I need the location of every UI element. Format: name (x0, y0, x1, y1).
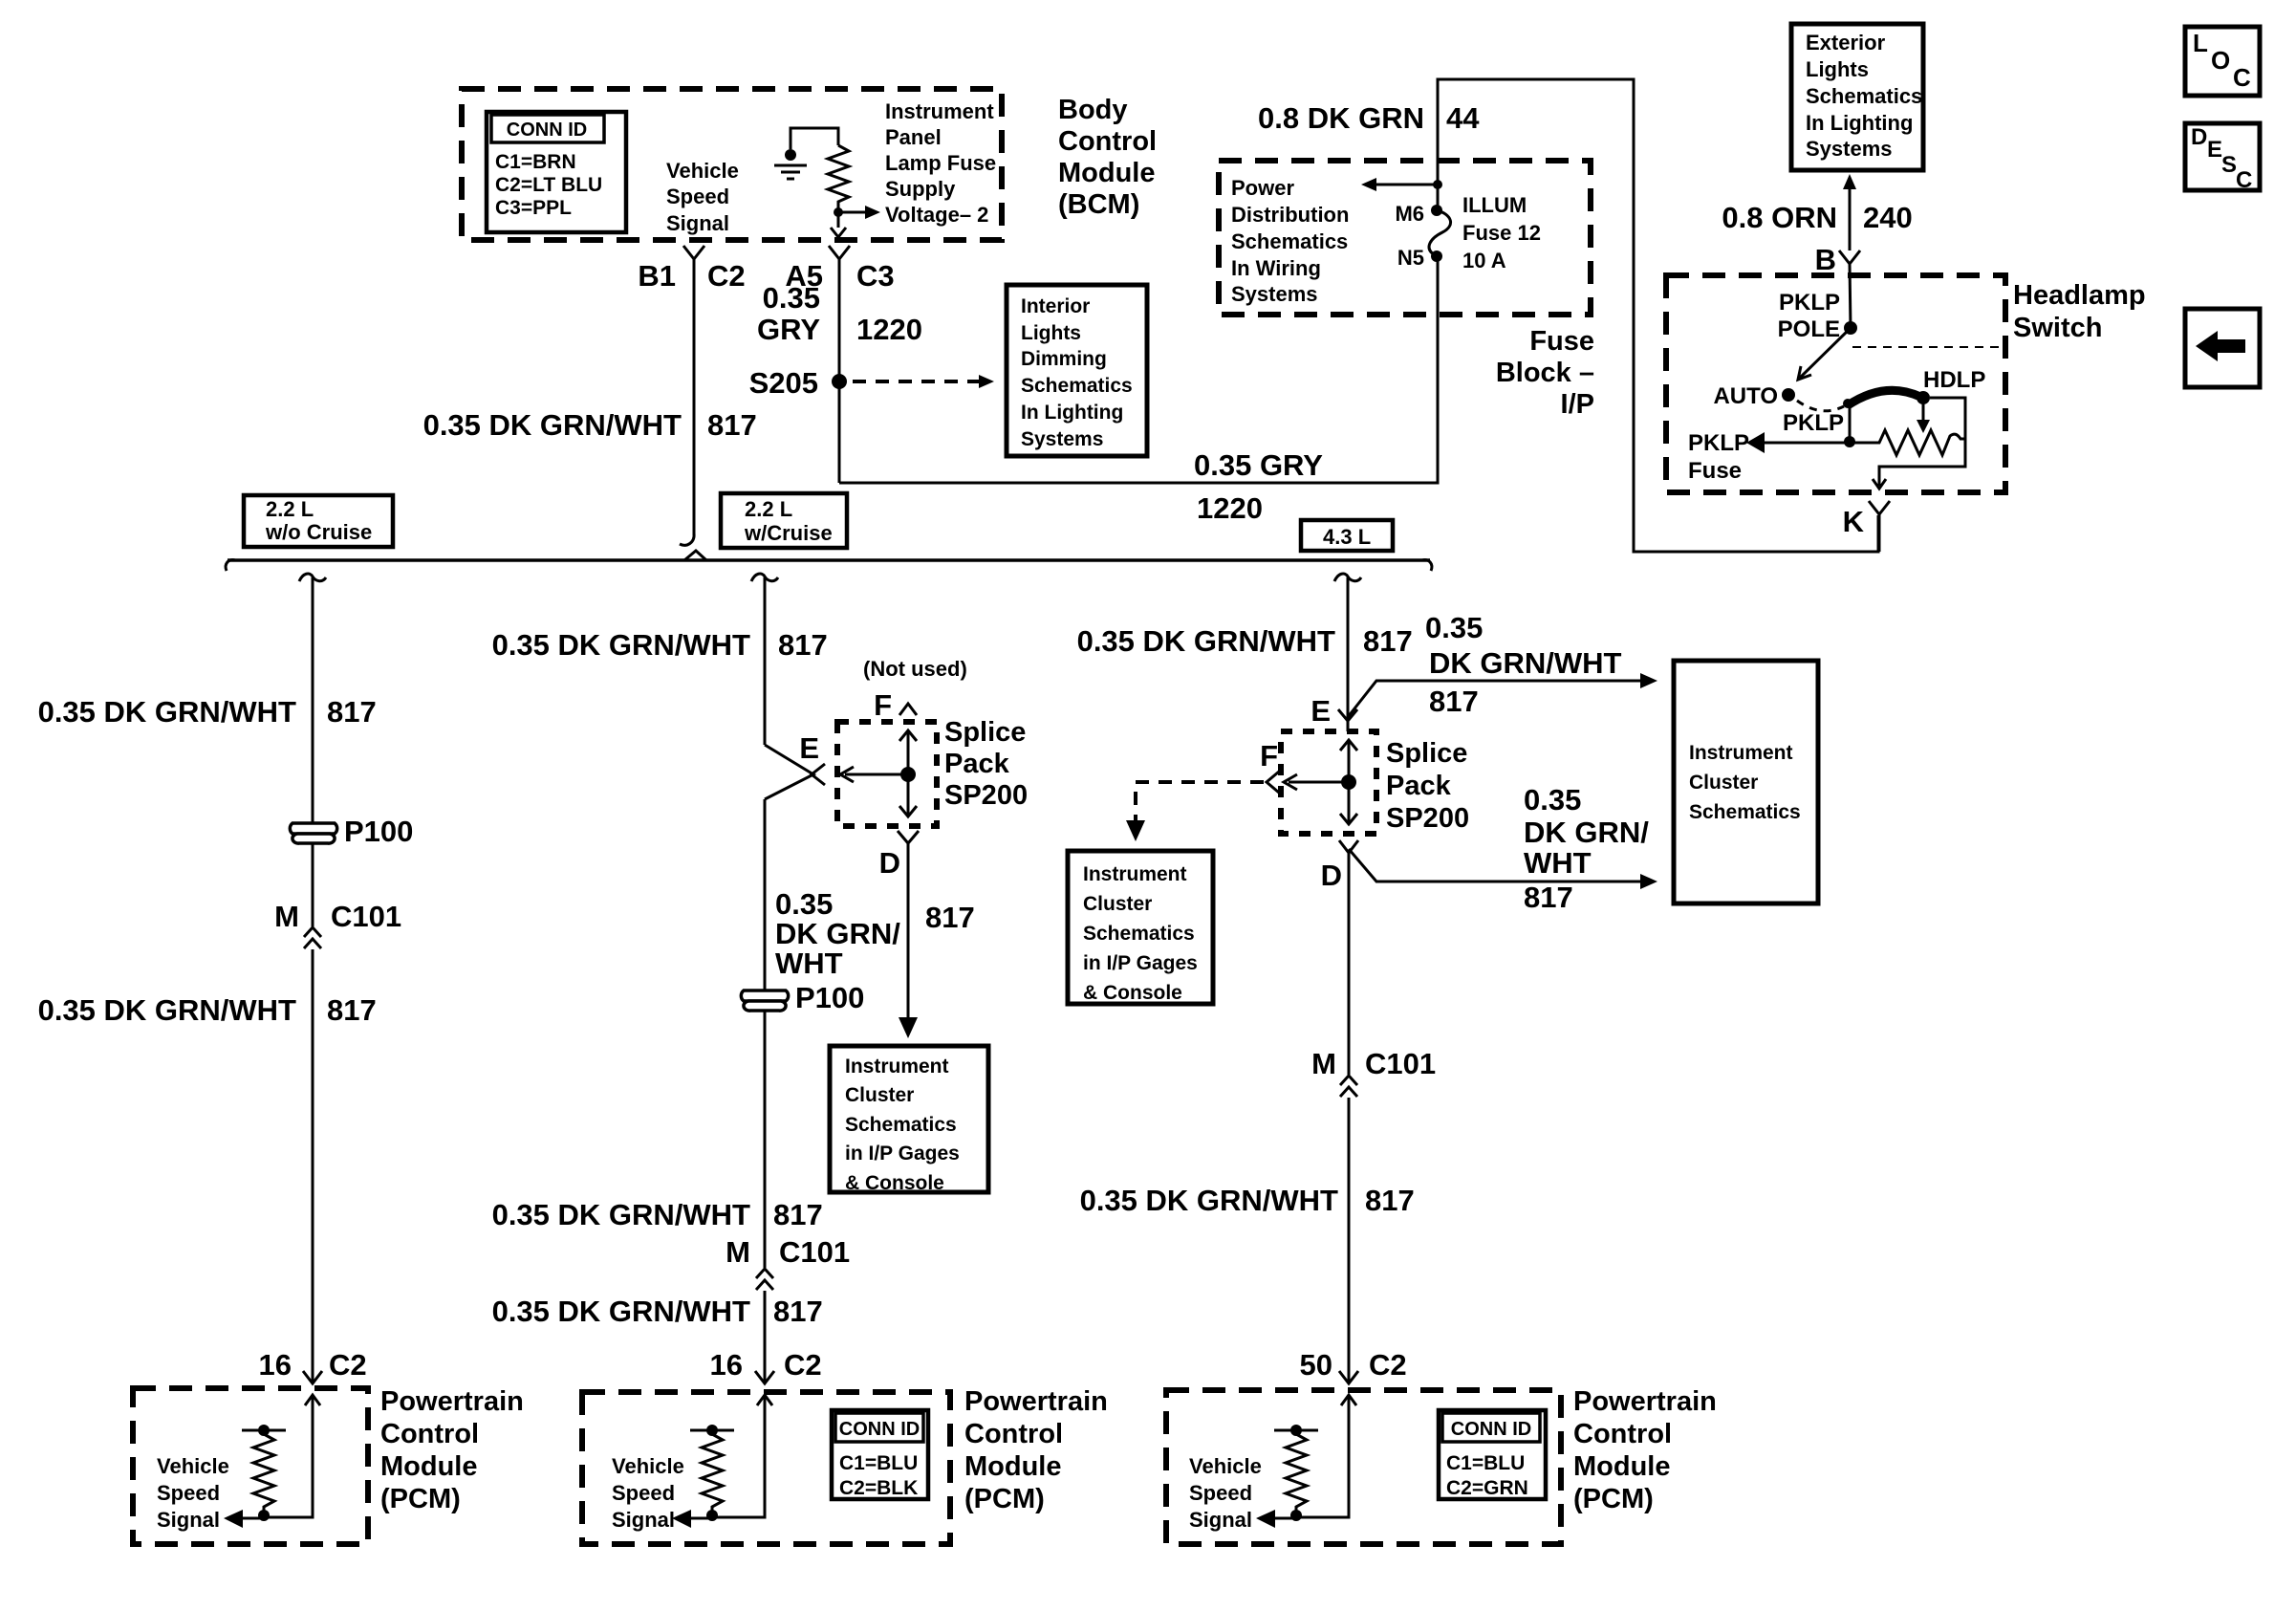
connector pin K (1843, 501, 1890, 538)
arrow vehicle speed signal (PCM2) (672, 1510, 712, 1528)
wire label 0.35 DK GRN/WHT 817 (492, 1295, 823, 1328)
branch hook (299, 574, 326, 581)
option box 4.3 L (1301, 520, 1393, 551)
label Vehicle Speed Signal (PCM1) (157, 1454, 229, 1532)
svg-text:Fuse 12: Fuse 12 (1462, 221, 1541, 245)
svg-text:C1=BLU: C1=BLU (1446, 1452, 1525, 1474)
svg-text:817: 817 (707, 408, 757, 442)
svg-text:w/o Cruise: w/o Cruise (265, 520, 372, 544)
svg-text:0.35 DK GRN/WHT: 0.35 DK GRN/WHT (492, 1198, 750, 1231)
svg-text:16: 16 (710, 1348, 743, 1382)
svg-text:Vehicle: Vehicle (1189, 1454, 1262, 1478)
svg-text:Schematics: Schematics (845, 1114, 957, 1136)
wire branch2 lower (764, 1291, 767, 1383)
label Headlamp Switch (2013, 280, 2146, 343)
label Fuse Block - I/P (1496, 326, 1594, 420)
svg-text:C3: C3 (856, 259, 895, 293)
svg-text:0.35 GRY: 0.35 GRY (1194, 448, 1323, 482)
svg-text:Fuse: Fuse (1529, 326, 1594, 357)
arrow to Power Distribution reference (1361, 178, 1438, 191)
svg-text:Cluster: Cluster (1083, 893, 1152, 915)
svg-text:817: 817 (327, 695, 377, 729)
wire inside PCM1 (264, 1395, 313, 1517)
svg-text:Powertrain: Powertrain (1573, 1386, 1717, 1417)
svg-text:817: 817 (778, 628, 828, 662)
pin labels B1 C2 (638, 259, 745, 293)
wire branch2 middle (764, 799, 767, 1268)
svg-text:I/P: I/P (1561, 389, 1594, 420)
svg-text:(PCM): (PCM) (1573, 1484, 1654, 1514)
wire fuse block loop to headlamp switch (1438, 79, 1878, 552)
svg-text:Pack: Pack (1386, 771, 1452, 801)
svg-text:Supply: Supply (885, 177, 956, 201)
dashed wire S205 to Interior Lights reference (853, 375, 994, 388)
svg-text:0.35: 0.35 (1425, 611, 1483, 644)
connector C101 pin M (branch1) (274, 900, 401, 948)
wire D down arrow to instrument cluster ref (899, 843, 918, 1038)
label Powertrain Control Module (PCM) 3 (1573, 1386, 1717, 1514)
wire branch3 lower (1348, 1098, 1351, 1383)
svg-text:817: 817 (1363, 624, 1413, 658)
svg-text:817: 817 (773, 1198, 823, 1231)
wire ground to resistor (791, 128, 838, 149)
connector pin B (headlamp switch) (1815, 243, 1860, 276)
wire label 0.35 DK GRN/WHT 817 (492, 628, 828, 662)
thin dashed divider (1852, 346, 2004, 348)
connector C101 pin M (branch2) (726, 1235, 850, 1290)
svg-text:Cluster: Cluster (1689, 772, 1758, 794)
svg-text:Speed: Speed (157, 1481, 220, 1505)
svg-text:Headlamp: Headlamp (2013, 280, 2146, 311)
connector pin B1 C2 (BCM exit) (683, 246, 704, 259)
svg-text:in I/P Gages: in I/P Gages (845, 1143, 960, 1165)
svg-text:In Lighting: In Lighting (1806, 111, 1913, 135)
svg-text:0.35 DK GRN/WHT: 0.35 DK GRN/WHT (38, 993, 296, 1027)
arrow to Voltage-2 (838, 206, 880, 219)
svg-text:C: C (2233, 63, 2251, 92)
icon box DESC (2185, 123, 2260, 193)
arrow vehicle speed signal (PCM3) (1256, 1510, 1296, 1528)
label Vehicle Speed Signal (PCM3) (1189, 1454, 1262, 1532)
svg-text:Control: Control (380, 1419, 479, 1449)
wire branch2 upper (764, 577, 767, 745)
svg-text:w/Cruise: w/Cruise (744, 521, 833, 545)
resistor vehicle speed signal (PCM2) (690, 1425, 734, 1521)
svg-text:10 A: 10 A (1462, 249, 1506, 272)
svg-text:& Console: & Console (1083, 982, 1182, 1004)
svg-text:Instrument: Instrument (885, 99, 994, 123)
switch contact bar (thick arc) (1843, 390, 1920, 408)
svg-text:S205: S205 (749, 366, 818, 400)
reference box Exterior Lights Schematics In Lighting Systems (1791, 24, 1923, 170)
svg-text:Lights: Lights (1021, 322, 1081, 344)
fuse ILLUM Fuse 12 10 A (1395, 193, 1541, 272)
wire labels 0.8 ORN 240 (1722, 201, 1912, 234)
svg-text:(Not used): (Not used) (863, 657, 967, 681)
svg-text:E: E (1310, 694, 1331, 728)
svg-text:PKLP: PKLP (1783, 410, 1844, 436)
svg-text:C2=BLK: C2=BLK (839, 1477, 918, 1499)
svg-text:Instrument: Instrument (1083, 863, 1187, 885)
wire label 0.8 DK GRN 44 (1258, 101, 1480, 135)
chevron arrow at K exit (1873, 479, 1886, 489)
label Vehicle Speed Signal (BCM) (666, 159, 739, 235)
svg-text:0.35: 0.35 (763, 281, 820, 315)
svg-text:F: F (874, 688, 892, 722)
reference box Power Distribution Schematics In Wiring Systems (dashed) (1219, 161, 1591, 315)
label Powertrain Control Module (PCM) 1 (380, 1386, 524, 1514)
svg-text:ILLUM: ILLUM (1462, 193, 1527, 217)
branch hook (1334, 574, 1361, 581)
wire labels 0.35 GRY 1220 (horizontal) (1194, 448, 1323, 525)
svg-text:44: 44 (1446, 101, 1480, 135)
svg-text:Instrument: Instrument (845, 1056, 949, 1078)
svg-text:(PCM): (PCM) (380, 1484, 461, 1514)
svg-text:M: M (274, 900, 299, 933)
svg-text:817: 817 (327, 993, 377, 1027)
entry arrow chevron (PCM1) (305, 1395, 320, 1405)
CONN ID table (BCM) (487, 112, 626, 232)
wire detour through splice E (765, 745, 813, 799)
svg-text:50: 50 (1300, 1348, 1332, 1382)
splice internal bus arrow (840, 730, 917, 816)
node junction at fuse feed (1433, 180, 1442, 189)
svg-text:WHT: WHT (775, 947, 843, 980)
svg-text:E: E (2207, 137, 2222, 163)
svg-text:0.35 DK GRN/WHT: 0.35 DK GRN/WHT (1080, 1184, 1338, 1217)
PCM3 dashed box (1166, 1390, 1561, 1544)
entry arrow chevron (PCM3) (1341, 1395, 1356, 1405)
svg-text:Systems: Systems (1806, 137, 1893, 161)
splice internal bus arrow (1284, 740, 1357, 824)
node S205 (749, 366, 847, 400)
svg-text:In Wiring: In Wiring (1231, 256, 1321, 280)
svg-text:Systems: Systems (1231, 282, 1318, 306)
svg-text:D: D (2191, 124, 2207, 150)
terminal F chevron (branch3) (1260, 739, 1279, 793)
svg-text:(BCM): (BCM) (1058, 189, 1139, 220)
CONN ID table (PCM2) (832, 1410, 928, 1499)
svg-text:DK GRN/: DK GRN/ (1524, 816, 1649, 849)
node junction below resistor (834, 207, 843, 217)
node PKLP POLE (1778, 290, 1857, 342)
svg-text:817: 817 (1429, 685, 1479, 718)
svg-text:0.35: 0.35 (1524, 783, 1581, 816)
splice pack SP200 dashed box (branch2) (837, 722, 937, 826)
entry arrow chevron (PCM2) (757, 1395, 772, 1405)
svg-text:Speed: Speed (612, 1481, 675, 1505)
svg-text:CONN ID: CONN ID (1451, 1419, 1531, 1440)
svg-text:Exterior: Exterior (1806, 31, 1886, 54)
svg-text:Dimming: Dimming (1021, 348, 1107, 370)
svg-text:Splice: Splice (1386, 738, 1467, 769)
svg-text:C2=LT BLU: C2=LT BLU (495, 174, 602, 196)
bus left end hook (226, 560, 235, 571)
svg-text:0.35 DK GRN/WHT: 0.35 DK GRN/WHT (1077, 624, 1335, 658)
wire label 0.35 DK GRN/WHT 817 (423, 408, 757, 442)
svg-text:P100: P100 (795, 981, 864, 1014)
svg-text:CONN ID: CONN ID (507, 120, 587, 141)
svg-text:0.8 ORN: 0.8 ORN (1722, 201, 1837, 234)
arrow vehicle speed signal (PCM1) (224, 1510, 264, 1528)
node AUTO (1713, 383, 1795, 409)
svg-text:Block –: Block – (1496, 358, 1594, 388)
svg-text:(PCM): (PCM) (964, 1484, 1045, 1514)
dashed wiper path AUTO to PKLP contact (1797, 401, 1844, 411)
switch wiper arrow POLE to AUTO (1798, 328, 1851, 380)
svg-text:Lamp Fuse: Lamp Fuse (885, 151, 996, 175)
svg-text:Control: Control (1058, 126, 1157, 157)
svg-text:Fuse: Fuse (1688, 458, 1742, 484)
svg-text:Module: Module (1058, 158, 1156, 188)
svg-text:0.35 DK GRN/WHT: 0.35 DK GRN/WHT (492, 1295, 750, 1328)
svg-text:0.35: 0.35 (775, 887, 833, 921)
connector pin A5 C3 (BCM exit) (829, 246, 850, 259)
connector P100 (branch2) (741, 981, 864, 1014)
connector pin 16 C2 (PCM1) (259, 1348, 367, 1383)
terminal D connector (splice SP200) (879, 831, 919, 880)
wire inside PCM3 (1296, 1395, 1349, 1517)
PCM1 dashed box (133, 1388, 368, 1544)
svg-text:L: L (2193, 29, 2208, 57)
svg-text:Power: Power (1231, 176, 1294, 200)
splice pack SP200 dashed box (branch3) (1281, 731, 1376, 834)
reference box Instrument Cluster Schematics in I/P Gages & Console (branch2) (830, 1046, 988, 1194)
svg-text:GRY: GRY (757, 313, 820, 346)
wire inside PCM2 (712, 1395, 765, 1517)
svg-text:Instrument: Instrument (1689, 742, 1793, 764)
svg-text:Splice: Splice (944, 717, 1026, 748)
svg-text:Powertrain: Powertrain (380, 1386, 524, 1417)
svg-text:817: 817 (925, 901, 975, 934)
reference box Instrument Cluster Schematics (right) (1674, 661, 1818, 903)
svg-text:Signal: Signal (157, 1508, 220, 1532)
label Powertrain Control Module (PCM) 2 (964, 1386, 1108, 1514)
wire labels 0.35 GRY 1220 (757, 281, 922, 346)
wire labels 0.35 DK GRN/WHT 817 (E tap) (1425, 611, 1622, 718)
wire arc to PKLP node (1849, 406, 1852, 442)
svg-text:C3=PPL: C3=PPL (495, 197, 572, 219)
svg-text:Panel: Panel (885, 125, 942, 149)
svg-text:C2: C2 (707, 259, 746, 293)
wire K down (1878, 514, 1881, 552)
bus right end hook (1422, 560, 1432, 571)
svg-text:Powertrain: Powertrain (964, 1386, 1108, 1417)
pin labels A5 C3 (785, 259, 894, 293)
svg-text:in I/P Gages: in I/P Gages (1083, 952, 1198, 974)
svg-text:C1=BRN: C1=BRN (495, 151, 576, 173)
svg-text:0.8 DK GRN: 0.8 DK GRN (1258, 101, 1424, 135)
svg-text:Interior: Interior (1021, 295, 1090, 317)
svg-text:Control: Control (964, 1419, 1063, 1449)
reference box Interior Lights Dimming Schematics In Lighting Systems (1007, 285, 1147, 456)
svg-text:N5: N5 (1397, 246, 1424, 270)
svg-text:240: 240 (1863, 201, 1913, 234)
connector C101 pin M (branch3) (1311, 1047, 1436, 1097)
BCM label Body Control Module (BCM) (1058, 95, 1157, 220)
svg-text:Distribution: Distribution (1231, 203, 1349, 227)
svg-text:HDLP: HDLP (1923, 367, 1985, 393)
svg-text:0.35 DK GRN/WHT: 0.35 DK GRN/WHT (492, 628, 750, 662)
svg-text:D: D (1321, 859, 1342, 892)
module BCM dashed box (462, 89, 1002, 240)
PCM2 dashed box (582, 1392, 950, 1544)
label Vehicle Speed Signal (PCM2) (612, 1454, 684, 1532)
svg-text:2.2 L: 2.2 L (266, 497, 314, 521)
bus wire (227, 558, 1430, 562)
wire labels 0.35 DK GRN/ WHT 817 (D tap) (1524, 783, 1649, 914)
svg-text:CONN ID: CONN ID (839, 1419, 920, 1440)
svg-text:PKLP: PKLP (1688, 430, 1749, 456)
wire 0.8 ORN up arrow into Exterior Lights (1843, 174, 1856, 250)
connector pin 50 C2 (PCM3) (1300, 1348, 1407, 1383)
svg-text:O: O (2211, 46, 2230, 75)
connector pin 16 C2 (PCM2) (710, 1348, 822, 1383)
svg-text:4.3 L: 4.3 L (1323, 525, 1371, 549)
svg-text:Voltage– 2: Voltage– 2 (885, 203, 988, 227)
svg-text:M: M (1311, 1047, 1336, 1080)
svg-text:Signal: Signal (612, 1508, 675, 1532)
label Instrument Panel Lamp Fuse Supply Voltage-2 (885, 99, 996, 227)
svg-text:B: B (1815, 243, 1836, 276)
svg-text:2.2 L: 2.2 L (745, 497, 792, 521)
wire B pin to POLE (1850, 264, 1851, 328)
icon box LOC (2185, 27, 2260, 96)
svg-text:SP200: SP200 (1386, 803, 1469, 834)
svg-text:C101: C101 (1365, 1047, 1436, 1080)
wire label 0.35 DK GRN/WHT 817 (1077, 624, 1413, 658)
svg-text:C2: C2 (784, 1348, 822, 1382)
svg-text:0.35 DK GRN/WHT: 0.35 DK GRN/WHT (423, 408, 682, 442)
svg-text:D: D (879, 846, 900, 880)
terminal F chevron (not used) (874, 688, 917, 722)
svg-text:817: 817 (1365, 1184, 1415, 1217)
svg-text:Speed: Speed (1189, 1481, 1252, 1505)
terminal E chevron (splice SP200) (799, 731, 825, 785)
svg-text:C2=GRN: C2=GRN (1446, 1477, 1528, 1499)
icon box back-arrow (2185, 309, 2260, 387)
svg-text:C2: C2 (329, 1348, 367, 1382)
wire branch3 middle (1348, 853, 1351, 1075)
bus junction bump at incoming wire (684, 551, 706, 560)
svg-text:M6: M6 (1395, 202, 1424, 226)
wire label 0.35 DK GRN/WHT 817 (38, 993, 377, 1027)
svg-text:PKLP: PKLP (1779, 290, 1840, 316)
wire label 0.35 DK GRN/WHT 817 (1080, 1184, 1415, 1217)
svg-text:C101: C101 (779, 1235, 850, 1269)
svg-text:Vehicle: Vehicle (612, 1454, 684, 1478)
connector P100 (branch1) (290, 815, 413, 848)
wire branch3 upper (1347, 577, 1350, 731)
svg-text:Module: Module (380, 1451, 478, 1482)
svg-text:SP200: SP200 (944, 780, 1028, 811)
svg-text:Vehicle: Vehicle (666, 159, 739, 183)
svg-text:0.35 DK GRN/WHT: 0.35 DK GRN/WHT (38, 695, 296, 729)
svg-text:1220: 1220 (856, 313, 922, 346)
wire B1/C2 down to bus (693, 259, 696, 535)
svg-text:Vehicle: Vehicle (157, 1454, 229, 1478)
svg-text:Signal: Signal (666, 211, 729, 235)
svg-text:Schematics: Schematics (1021, 375, 1133, 397)
wire branch1 lower (312, 949, 314, 1383)
svg-text:16: 16 (259, 1348, 292, 1382)
svg-text:Cluster: Cluster (845, 1084, 914, 1106)
svg-text:C1=BLU: C1=BLU (839, 1452, 918, 1474)
svg-text:K: K (1843, 505, 1865, 538)
svg-text:Systems: Systems (1021, 428, 1103, 450)
svg-text:Schematics: Schematics (1231, 229, 1348, 253)
wire branch1 upper (312, 577, 314, 926)
terminal D connector and tap to instrument cluster (1321, 840, 1657, 892)
option box 2.2 L w/o Cruise (244, 495, 393, 547)
wiper arrow to rheostat (1917, 403, 1930, 433)
option box 2.2 L w/Cruise (721, 493, 847, 548)
svg-text:& Console: & Console (845, 1172, 944, 1194)
svg-text:C: C (2236, 167, 2252, 193)
reference box Instrument Cluster Schematics in I/P Gages & Console (middle) (1068, 851, 1213, 1004)
node PKLP junction (1783, 410, 1855, 447)
svg-text:Speed: Speed (666, 185, 729, 208)
svg-text:M: M (726, 1235, 750, 1269)
branch hook (751, 574, 778, 581)
svg-text:C2: C2 (1369, 1348, 1407, 1382)
wire HDLP loop (1879, 398, 1965, 486)
svg-text:Signal: Signal (1189, 1508, 1252, 1532)
svg-text:DK GRN/: DK GRN/ (775, 917, 900, 950)
wire labels 0.35 DK GRN/ WHT 817 (775, 887, 975, 980)
svg-text:S: S (2221, 152, 2237, 178)
wire 0.35 GRY horizontal (839, 256, 1438, 483)
svg-text:In Lighting: In Lighting (1021, 402, 1123, 424)
svg-text:Schematics: Schematics (1083, 923, 1195, 945)
svg-text:817: 817 (1524, 881, 1573, 914)
svg-text:P100: P100 (344, 815, 413, 848)
wire C3 down through S205 (838, 259, 841, 483)
svg-text:Control: Control (1573, 1419, 1672, 1449)
resistor vehicle speed signal (PCM1) (242, 1425, 286, 1521)
wire break hook (680, 533, 694, 545)
label Splice Pack SP200 (1386, 738, 1469, 834)
svg-text:DK GRN/WHT: DK GRN/WHT (1429, 646, 1622, 680)
CONN ID table (PCM3) (1439, 1410, 1546, 1499)
svg-text:817: 817 (773, 1295, 823, 1328)
wire label 0.35 DK GRN/WHT 817 (38, 695, 377, 729)
resistor vehicle speed signal (PCM3) (1274, 1425, 1318, 1521)
svg-text:C101: C101 (331, 900, 401, 933)
node HDLP (1917, 367, 1985, 404)
svg-text:Pack: Pack (944, 749, 1010, 779)
wire down to C3 pin with chevron arrow (831, 212, 846, 237)
svg-text:WHT: WHT (1524, 846, 1592, 880)
svg-text:Module: Module (1573, 1451, 1671, 1482)
arrow to PKLP Fuse (1688, 430, 1850, 484)
svg-text:Schematics: Schematics (1806, 84, 1922, 108)
rheostat resistor (1850, 430, 1965, 455)
svg-text:B1: B1 (638, 259, 676, 293)
wire label 0.35 DK GRN/WHT 817 (492, 1198, 823, 1231)
dashed wire F to instrument cluster ref (1126, 782, 1264, 841)
svg-text:E: E (799, 731, 819, 765)
svg-text:Body: Body (1058, 95, 1128, 125)
svg-text:F: F (1260, 739, 1278, 773)
svg-text:POLE: POLE (1778, 316, 1840, 342)
svg-text:AUTO: AUTO (1713, 383, 1778, 409)
terminal E chevron and tap to instrument cluster (1310, 673, 1657, 728)
svg-text:Lights: Lights (1806, 57, 1869, 81)
ground (inside BCM) (774, 149, 807, 179)
headlamp switch dashed box (1666, 275, 2005, 492)
svg-text:Switch: Switch (2013, 313, 2102, 343)
